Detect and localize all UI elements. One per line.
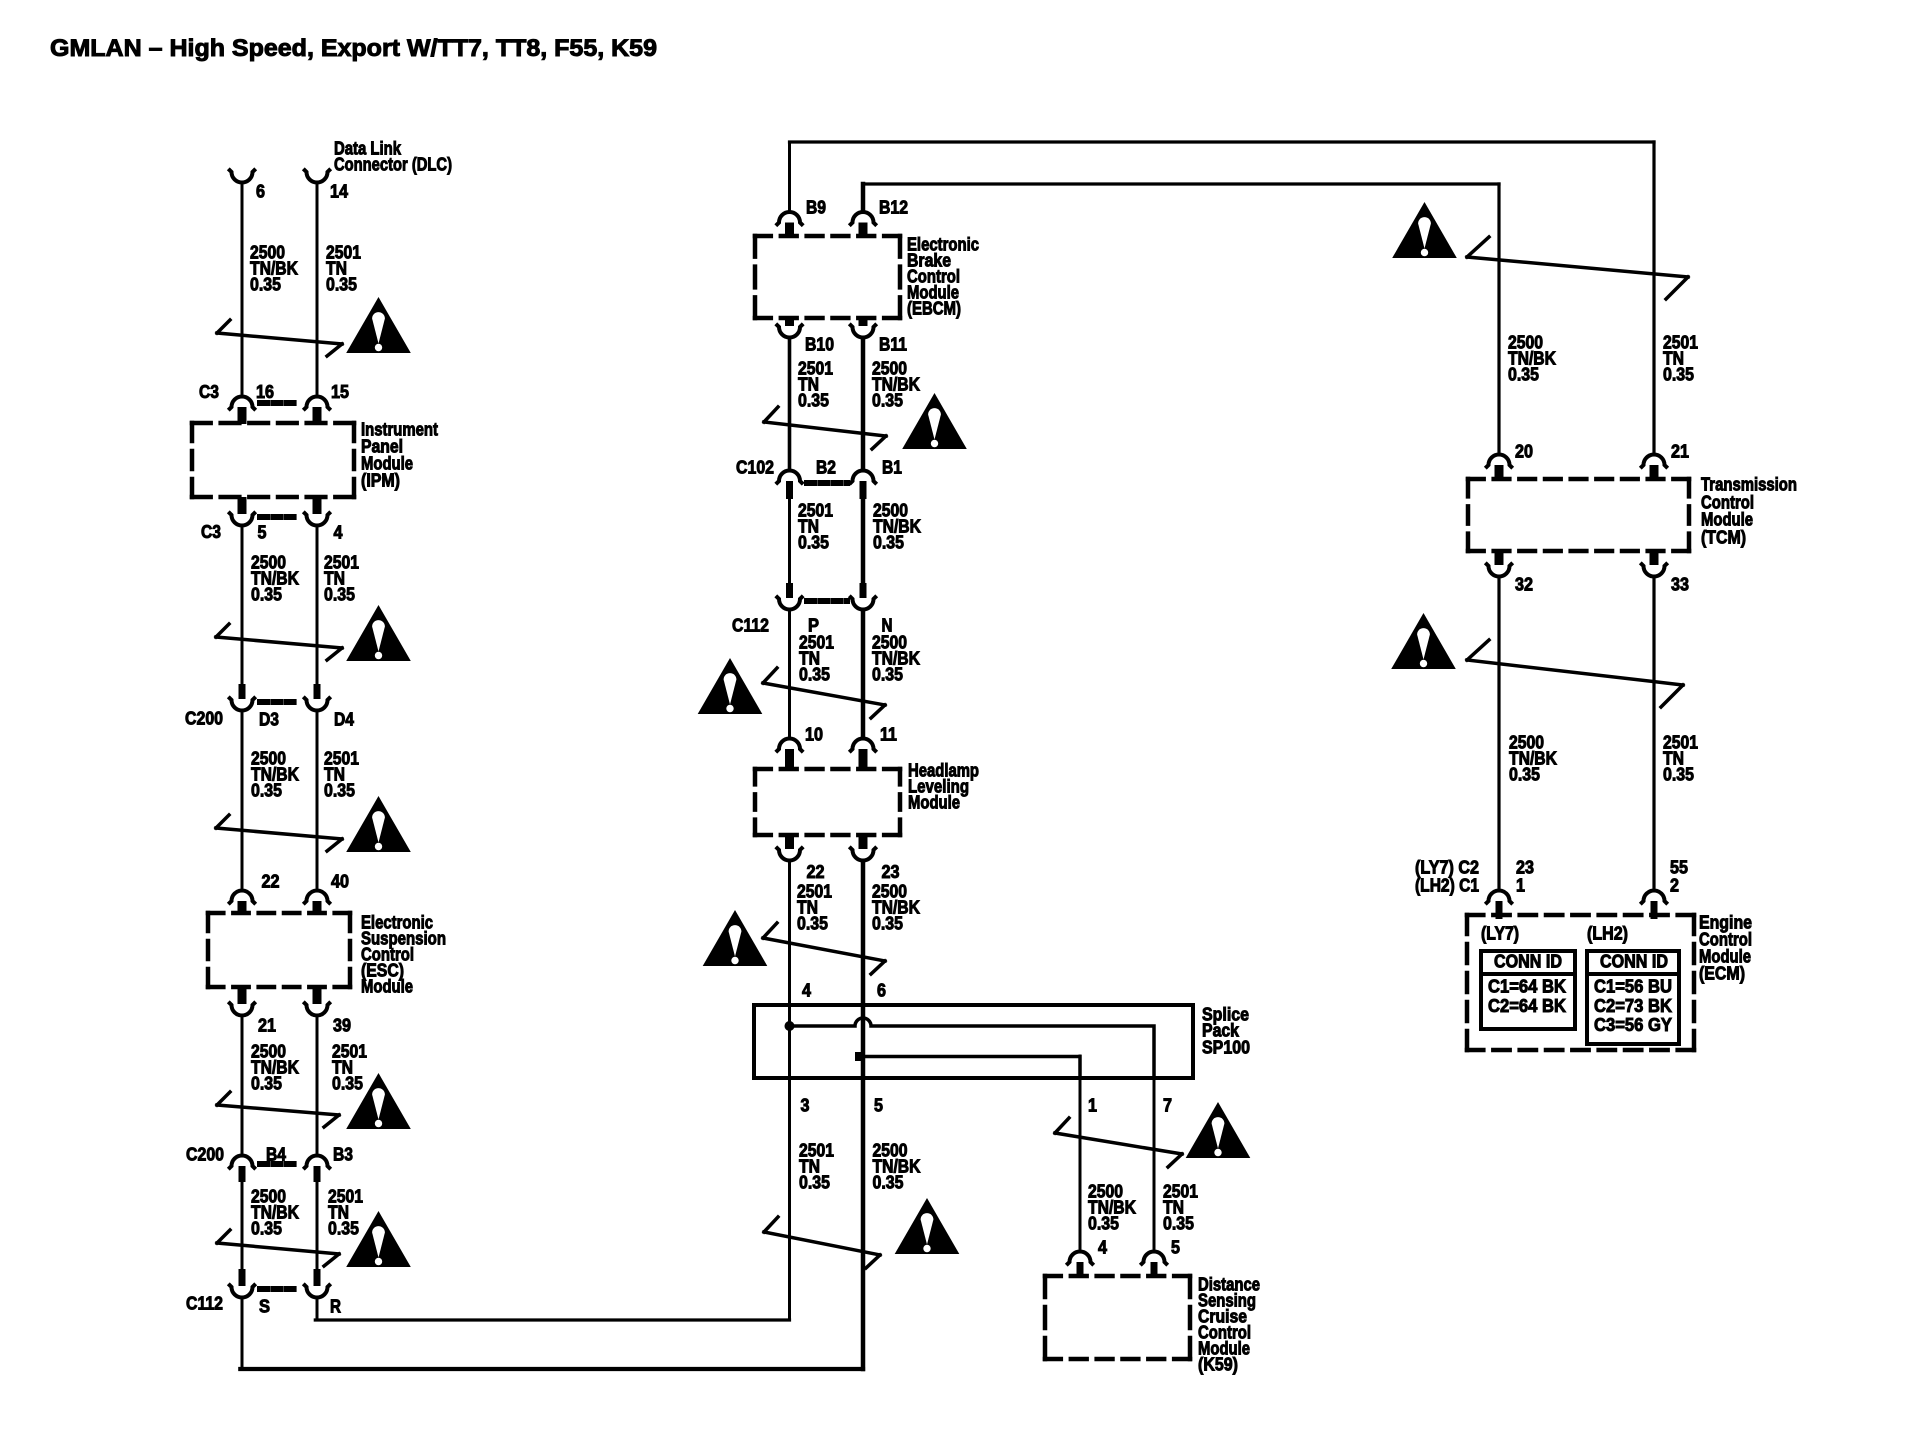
wire 2500 TN/BK HLM-23 to SP100	[861, 862, 866, 1369]
svg-text:21: 21	[258, 1015, 276, 1035]
connector C112 pin N terminal	[860, 583, 867, 598]
svg-text:C102: C102	[736, 457, 774, 477]
svg-text:15: 15	[331, 382, 349, 402]
connector C200 pin D3 terminal	[239, 684, 246, 699]
warning triangle R1	[1392, 202, 1457, 258]
svg-text:23: 23	[882, 862, 900, 882]
wire 2501 TN EBCM-B10 to C102-B2	[788, 339, 792, 469]
connector C3 pin 16 terminal	[228, 397, 255, 411]
module ECM pin 23/1 terminal	[1485, 891, 1512, 905]
svg-text:D3: D3	[259, 709, 279, 729]
warning triangle M3	[703, 910, 768, 966]
connector C112 pin P terminal	[786, 583, 793, 598]
warning triangle 5	[346, 1211, 411, 1267]
wire 2500 TN/BK C200-D3 to ESC-22	[241, 712, 244, 890]
wire C112-S down and right to splice wire 5	[241, 1299, 244, 1369]
svg-text:(LY7) C2: (LY7) C2	[1415, 857, 1479, 877]
wire 2500 TN/BK ESC-21 to C200-B4	[241, 1017, 244, 1154]
connector C200 pin D4 terminal	[314, 684, 321, 699]
splice inner bus line 2	[863, 1057, 1080, 1079]
svg-text:(LH2): (LH2)	[1587, 923, 1628, 943]
wire 2500 TN/BK TCM-32 to ECM	[1497, 578, 1500, 889]
svg-text:0.35: 0.35	[251, 1074, 282, 1094]
splice tap square on wire 6	[855, 1052, 864, 1061]
off-page crossing arrow 2	[216, 637, 342, 648]
connector DLC pin 14 terminal	[303, 169, 330, 183]
warning triangle 1	[346, 297, 411, 353]
svg-text:0.35: 0.35	[872, 914, 903, 934]
module EBCM pin B9 terminal	[776, 212, 803, 226]
svg-text:5: 5	[1171, 1237, 1180, 1257]
connector C3 pin 4 terminal	[313, 497, 322, 514]
module TCM pin 33 terminal	[1650, 551, 1659, 565]
connector C3 dashed mating line	[260, 400, 299, 406]
svg-text:32: 32	[1515, 574, 1533, 594]
svg-text:3: 3	[801, 1095, 810, 1115]
off-page crossing arrow 4	[217, 1105, 339, 1115]
svg-text:D4: D4	[334, 709, 355, 729]
svg-text:C1=56 BU: C1=56 BU	[1594, 976, 1672, 996]
off-page crossing arrow 1	[217, 333, 342, 344]
svg-text:0.35: 0.35	[872, 665, 903, 685]
module TCM pin 20 terminal	[1485, 455, 1512, 469]
svg-text:B3: B3	[333, 1144, 353, 1164]
wire 2501 TN C200-B3 to C112-R	[316, 1182, 319, 1269]
wire top horizontal B12 to TCM-20	[863, 182, 1499, 185]
module HLM pin 11 terminal	[849, 739, 876, 753]
wire 2501 TN HLM-22 to SP100	[788, 862, 791, 1026]
connector C102 dashed mating line	[807, 480, 847, 486]
wire C112-R down and right to splice wire 3	[316, 1299, 319, 1320]
svg-text:GMLAN – High Speed, Export W/T: GMLAN – High Speed, Export W/TT7, TT8, F…	[50, 35, 657, 62]
connector C102 pin B2 terminal	[776, 471, 803, 485]
svg-text:16: 16	[256, 382, 274, 402]
wire 2501 TN DLC-14 to C3-15	[316, 184, 319, 395]
svg-text:0.35: 0.35	[332, 1074, 363, 1094]
wire 2501 TN C200-D4 to ESC-40	[316, 712, 319, 890]
svg-text:20: 20	[1515, 441, 1533, 461]
off-page crossing arrow 3	[216, 828, 342, 839]
module DSCC box	[1045, 1274, 1190, 1279]
module TCM box	[1468, 477, 1689, 482]
wire 2501 TN C3-4 to C200-D4	[316, 527, 319, 684]
splice pack SP100 box	[754, 1005, 1193, 1078]
svg-text:B11: B11	[879, 334, 907, 354]
wire 2500 TN/BK vertical to TCM-20	[1497, 184, 1500, 453]
connector C112 pin R terminal	[314, 1269, 321, 1286]
off-page crossing arrow M5	[1055, 1133, 1182, 1154]
svg-text:0.35: 0.35	[324, 585, 355, 605]
svg-text:(LH2) C1: (LH2) C1	[1415, 875, 1479, 895]
module ESC pin 22 terminal	[228, 891, 255, 905]
module EBCM pin B10 terminal	[785, 318, 794, 326]
connector C200 pin B4 terminal	[228, 1156, 255, 1170]
connector C3 pin 5 terminal	[238, 497, 247, 514]
warning triangle M1	[902, 393, 967, 449]
svg-text:0.35: 0.35	[873, 533, 904, 553]
module ESC pin 21 terminal	[238, 987, 247, 1004]
off-page crossing arrow M4	[764, 1232, 880, 1255]
table LH2 body box	[1587, 974, 1679, 1044]
connector C3 pin 15 terminal	[303, 397, 330, 411]
svg-text:55: 55	[1670, 857, 1688, 877]
svg-text:5: 5	[874, 1095, 883, 1115]
svg-text:0.35: 0.35	[328, 1219, 359, 1239]
module HLM pin 10 terminal	[776, 739, 803, 753]
svg-text:33: 33	[1671, 574, 1689, 594]
wire 2501 TN C112-P to HLM-10	[788, 611, 791, 737]
svg-text:2: 2	[1670, 875, 1679, 895]
wire 2501 TN SP100-7 to DSCC-5	[1153, 1026, 1156, 1250]
svg-text:0.35: 0.35	[251, 1219, 282, 1239]
warning triangle 4	[346, 1073, 411, 1129]
svg-text:B9: B9	[806, 197, 826, 217]
module EBCM pin B11 terminal	[859, 318, 868, 326]
svg-text:4: 4	[334, 522, 344, 542]
svg-text:21: 21	[1671, 441, 1689, 461]
wire top horizontal B9 to TCM-21	[790, 140, 1655, 143]
svg-text:0.35: 0.35	[251, 585, 282, 605]
svg-text:7: 7	[1163, 1095, 1172, 1115]
wire 2501 TN SP100-3 down to C112-R run	[788, 1026, 791, 1320]
svg-text:Module: Module	[361, 976, 413, 996]
svg-text:1: 1	[1516, 875, 1525, 895]
svg-text:1: 1	[1088, 1095, 1097, 1115]
svg-text:0.35: 0.35	[1663, 365, 1694, 385]
svg-text:0.35: 0.35	[1163, 1214, 1194, 1234]
table LH2 CONN ID header box	[1587, 951, 1679, 974]
svg-text:0.35: 0.35	[798, 391, 829, 411]
module TCM pin 32 terminal	[1495, 551, 1504, 565]
off-page crossing arrow M1	[764, 422, 886, 436]
module IPM box	[192, 421, 354, 426]
connector C3 row5 dashed mating line	[260, 514, 299, 520]
wire 2500 TN/BK EBCM-B11 to C102-B1	[861, 339, 866, 469]
module HLM pin 22 terminal	[785, 835, 794, 849]
svg-text:C3: C3	[201, 522, 221, 542]
svg-text:39: 39	[333, 1015, 351, 1035]
svg-text:22: 22	[807, 862, 825, 882]
wire B12 vertical drop	[861, 184, 866, 211]
wire 2500 TN/BK C3-5 to C200-D3	[241, 527, 244, 684]
svg-text:C200: C200	[185, 708, 223, 728]
svg-text:0.35: 0.35	[1508, 365, 1539, 385]
svg-text:C3=56 GY: C3=56 GY	[1594, 1015, 1672, 1035]
module ECM pin 55/2 terminal	[1640, 891, 1667, 905]
wire B9 vertical drop	[788, 142, 791, 211]
svg-text:(LY7): (LY7)	[1481, 923, 1519, 943]
svg-text:0.35: 0.35	[326, 275, 357, 295]
module DSCC pin 5 terminal	[1140, 1252, 1167, 1266]
connector C112 pin S terminal	[239, 1269, 246, 1286]
splice inner bus line 1 with hop over wire 6	[790, 1018, 1155, 1078]
splice junction dot	[785, 1021, 795, 1031]
wire 2501 TN ESC-39 to C200-B3	[316, 1017, 319, 1154]
svg-text:Connector (DLC): Connector (DLC)	[334, 154, 452, 174]
svg-text:14: 14	[330, 181, 349, 201]
connector C112 PN dashed mating line	[807, 598, 847, 604]
wire 2500 TN/BK DLC-6 to C3-16	[241, 184, 244, 395]
warning triangle M4	[895, 1198, 960, 1254]
warning triangle M5	[1186, 1102, 1251, 1158]
svg-text:C3: C3	[199, 382, 219, 402]
svg-text:6: 6	[877, 980, 886, 1000]
off-page crossing arrow R1	[1467, 257, 1688, 277]
svg-text:0.35: 0.35	[1088, 1214, 1119, 1234]
off-page crossing arrow R2	[1467, 660, 1683, 685]
table LY7 CONN ID header box	[1481, 951, 1575, 974]
svg-text:C112: C112	[186, 1293, 223, 1313]
connector DLC pin 6 terminal	[228, 169, 255, 183]
svg-text:CONN ID: CONN ID	[1494, 951, 1562, 971]
wire 2500 TN/BK SP100-1 to DSCC-4	[1079, 1056, 1082, 1250]
svg-text:23: 23	[1516, 857, 1534, 877]
svg-text:(IPM): (IPM)	[361, 470, 400, 490]
warning triangle R2	[1391, 613, 1456, 669]
svg-text:C2=73 BK: C2=73 BK	[1594, 996, 1672, 1016]
svg-text:0.35: 0.35	[798, 533, 829, 553]
svg-text:0.35: 0.35	[324, 781, 355, 801]
svg-text:10: 10	[805, 724, 823, 744]
svg-text:22: 22	[262, 871, 280, 891]
svg-text:C200: C200	[186, 1144, 224, 1164]
wire 2500 TN/BK C102-B1 to C112-N	[861, 499, 866, 583]
svg-text:B1: B1	[882, 457, 902, 477]
svg-text:0.35: 0.35	[1663, 765, 1694, 785]
svg-text:Transmission: Transmission	[1701, 474, 1797, 494]
svg-text:(TCM): (TCM)	[1701, 527, 1746, 547]
svg-text:6: 6	[256, 181, 265, 201]
svg-text:0.35: 0.35	[251, 781, 282, 801]
svg-text:40: 40	[331, 871, 349, 891]
svg-text:4: 4	[802, 980, 812, 1000]
svg-text:0.35: 0.35	[799, 665, 830, 685]
warning triangle M2	[698, 658, 763, 714]
svg-text:0.35: 0.35	[250, 275, 281, 295]
svg-text:0.35: 0.35	[873, 1173, 904, 1193]
wire 2501 TN vertical to TCM-21	[1652, 142, 1655, 453]
svg-text:0.35: 0.35	[1509, 765, 1540, 785]
svg-text:Module: Module	[908, 792, 960, 812]
svg-text:C112: C112	[732, 615, 769, 635]
svg-text:B2: B2	[816, 457, 836, 477]
module ESC pin 40 terminal	[303, 891, 330, 905]
svg-text:(ECM): (ECM)	[1699, 963, 1745, 983]
svg-text:0.35: 0.35	[797, 914, 828, 934]
wire 2500 TN/BK C112-N to HLM-11	[861, 611, 866, 737]
wire 2501 TN C102-B2 to C112-P	[788, 499, 791, 583]
svg-text:CONN ID: CONN ID	[1600, 951, 1668, 971]
svg-text:5: 5	[258, 522, 267, 542]
wire 2501 TN TCM-33 to ECM	[1652, 578, 1655, 889]
svg-text:0.35: 0.35	[799, 1173, 830, 1193]
connector C200 pin B3 terminal	[303, 1156, 330, 1170]
svg-text:(K59): (K59)	[1198, 1354, 1238, 1374]
svg-text:0.35: 0.35	[872, 391, 903, 411]
module Headlamp Leveling Module box	[755, 767, 900, 772]
module DSCC pin 4 terminal	[1066, 1252, 1093, 1266]
svg-text:11: 11	[880, 724, 897, 744]
connector C102 pin B1 terminal	[849, 471, 876, 485]
module TCM pin 21 terminal	[1640, 455, 1667, 469]
module ECM box	[1467, 913, 1694, 918]
table LY7 body box	[1481, 974, 1575, 1029]
module ESC box	[208, 911, 350, 916]
svg-text:S: S	[259, 1296, 270, 1316]
svg-text:(EBCM): (EBCM)	[907, 298, 961, 318]
module HLM pin 23 terminal	[859, 835, 868, 849]
wire 2500 TN/BK C200-B4 to C112-S	[241, 1182, 244, 1269]
off-page crossing arrow 5	[217, 1243, 339, 1254]
off-page crossing arrow M2	[763, 683, 885, 705]
svg-text:B10: B10	[805, 334, 834, 354]
connector C200 rowB dashed mating line	[260, 1161, 299, 1167]
svg-text:B12: B12	[879, 197, 908, 217]
svg-text:R: R	[330, 1296, 341, 1316]
module EBCM pin B12 terminal	[849, 212, 876, 226]
svg-text:C2=64 BK: C2=64 BK	[1488, 996, 1566, 1016]
svg-text:C1=64 BK: C1=64 BK	[1488, 976, 1566, 996]
connector C200 dashed mating line	[260, 699, 299, 705]
svg-text:4: 4	[1098, 1237, 1108, 1257]
module EBCM box	[755, 234, 900, 239]
svg-text:Module: Module	[1701, 509, 1753, 529]
warning triangle 2	[346, 605, 411, 661]
warning triangle 3	[346, 796, 411, 852]
module ESC pin 39 terminal	[313, 987, 322, 1004]
svg-text:SP100: SP100	[1202, 1037, 1250, 1057]
connector C112 rowSR dashed mating line	[260, 1286, 299, 1292]
off-page crossing arrow M3	[763, 938, 885, 961]
